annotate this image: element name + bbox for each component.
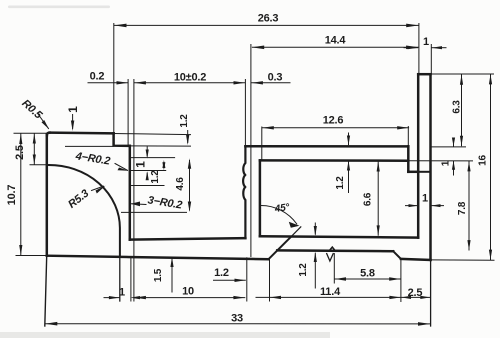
1 right-wall arrows	[409, 204, 419, 207]
1.2 bottom-left arrow	[235, 279, 246, 282]
svg-text:1.2: 1.2	[335, 176, 346, 190]
svg-text:7.8: 7.8	[457, 201, 468, 215]
dim 1.2 tongue lower arrow line	[314, 253, 316, 288]
cluster line y185.5	[130, 185, 164, 187]
4-R0.2 leader arrow	[118, 168, 129, 171]
ext left edge down (33 left)	[45, 256, 47, 326]
svg-text:33: 33	[231, 313, 243, 325]
7.8 arrows	[467, 161, 470, 171]
right tab top	[418, 73, 430, 76]
12.6 arrows	[262, 126, 274, 129]
svg-text:16: 16	[478, 155, 489, 166]
dim line 5.8	[335, 278, 401, 280]
pocket right step horizontal	[408, 171, 418, 174]
ext slot-left-wall down	[130, 258, 132, 302]
5.8 arrows	[335, 277, 346, 280]
dim line 0.2 tail	[88, 82, 128, 84]
dim line 33	[46, 323, 431, 325]
dim line 2.5 left	[33, 134, 35, 164]
cluster line y157.6	[130, 157, 175, 159]
14.4 right arrow	[406, 46, 418, 50]
slot floor	[130, 238, 246, 239]
slot left wall	[129, 146, 132, 240]
leader 3-R0.2	[132, 203, 147, 206]
svg-text:1.2: 1.2	[298, 263, 309, 277]
dim 1 cluster upper arrow line	[146, 147, 148, 156]
dim 45deg arc	[261, 205, 297, 224]
scan shade bottom	[0, 332, 330, 338]
ext arc-end down (1 bottom)	[119, 257, 121, 302]
leader R0.5	[38, 114, 49, 129]
ext top edge right thin	[114, 134, 191, 135]
bottom edge left	[47, 256, 269, 260]
step horizontal continuation to right edge	[418, 171, 430, 173]
pocket bottom	[260, 236, 418, 237]
step down at x=113.6	[114, 133, 130, 146]
dim 7.8 line	[468, 162, 470, 251]
top edge left section	[50, 131, 114, 134]
ext pocket top right (7.8 top, crossing tab)	[409, 160, 473, 162]
ext slot-right-wall down	[246, 258, 248, 301]
svg-text:1: 1	[441, 160, 452, 166]
ext V-notch down (5.8 left)	[333, 254, 335, 284]
dim 16 line	[490, 75, 492, 260]
1 right-step arrows	[452, 138, 455, 147]
left edge	[46, 135, 49, 256]
svg-text:10.7: 10.7	[6, 185, 18, 206]
dim line 0.3 tail	[252, 82, 291, 84]
tongue right chamfer	[393, 251, 401, 259]
svg-text:11.4: 11.4	[320, 286, 341, 298]
svg-text:10±0.2: 10±0.2	[174, 72, 206, 84]
scan streak top-left	[8, 6, 110, 9]
1.2 tongue arrows	[314, 226, 317, 236]
dim 1.2 pocket lower arrow line	[348, 161, 350, 192]
1.2 pocket arrows	[347, 136, 350, 146]
dim line 11.4 / 2.5 bottom	[256, 296, 430, 298]
part right edge	[429, 74, 432, 260]
R5.3 arc	[47, 165, 120, 256]
cluster line y170.5	[130, 170, 166, 172]
ext chamfer-start down (11.4 left)	[269, 260, 271, 302]
dim 1 right-step upper arrow line	[453, 141, 455, 147]
dim line 14.4	[252, 46, 418, 48]
pocket top	[260, 159, 408, 162]
ext top face right (6.3 bottom)	[431, 146, 466, 148]
svg-text:45°: 45°	[273, 202, 291, 215]
svg-text:6.3: 6.3	[452, 100, 463, 114]
45 deg chamfer thin extension	[291, 227, 301, 237]
svg-text:6.6: 6.6	[363, 192, 374, 206]
33 arrows	[45, 322, 57, 326]
dim 1 top-left arrow line	[72, 115, 74, 129]
ext tab-left up (26.3/14.4 right)	[418, 24, 420, 74]
dim 6.6 line	[377, 162, 379, 235]
45 deg chamfer	[269, 237, 291, 259]
dim 1 cluster lower arrow line	[146, 173, 148, 179]
leader R5.3	[92, 186, 104, 190]
4.6 arrows	[188, 158, 191, 169]
slot right wall (wavy middle)	[243, 146, 245, 238]
6.6 arrows	[377, 161, 380, 171]
svg-text:14.4: 14.4	[325, 35, 347, 47]
1 tab arrows	[408, 46, 419, 49]
V notch on tongue	[329, 247, 335, 251]
bottom edge right	[401, 259, 431, 260]
3-R0.2 leader arrow	[131, 202, 140, 207]
2.5 bottom arrows	[401, 296, 411, 299]
svg-text:1.5: 1.5	[153, 268, 164, 282]
ext step line left of step (1 top-left)	[66, 145, 114, 147]
svg-text:1.2: 1.2	[179, 114, 190, 128]
surface symbol below tongue	[327, 254, 334, 261]
svg-text:4.6: 4.6	[175, 177, 186, 191]
dim line 1.2 bottom-left	[214, 279, 246, 281]
svg-text:26.3: 26.3	[258, 13, 279, 25]
dim 1 right-wall arrow lines	[406, 205, 444, 207]
45 arc arrow	[289, 222, 300, 228]
ext bottom edge right (16 bottom)	[432, 259, 495, 261]
svg-text:10: 10	[182, 286, 194, 298]
dim 1 right-step lower arrow line	[453, 161, 455, 175]
10 bottom arrows	[134, 296, 146, 299]
pocket left wall	[259, 160, 262, 236]
svg-text:1: 1	[66, 106, 80, 113]
ext top edge left (10.7/2.5 top)	[14, 132, 46, 134]
1.2 top-mid arrow down	[186, 135, 189, 146]
ext 10 dim left full	[133, 80, 135, 302]
ext 2.5 bottom (arc start level)	[30, 164, 48, 166]
R5.3 leader arrow	[96, 186, 106, 194]
svg-text:5.8: 5.8	[360, 268, 375, 280]
dim line 10 bottom	[134, 297, 244, 299]
dim 1.2 cluster arrows line	[163, 163, 165, 168]
ext step corner up (26.3 left)	[113, 24, 115, 133]
svg-text:1.2: 1.2	[214, 267, 229, 279]
0.3 arrow	[251, 81, 263, 84]
10.7 arrows	[19, 134, 22, 144]
right tab left edge + pocket right wall	[417, 74, 420, 237]
dim 1.2 top-mid line	[187, 131, 189, 143]
16 arrows	[489, 74, 492, 84]
svg-text:1: 1	[422, 193, 428, 205]
14.4 left arrow	[252, 46, 264, 50]
cluster line y212.4 (4.6 bottom)	[122, 211, 187, 213]
dim line 10.7	[20, 134, 22, 255]
1 cluster arrows	[146, 150, 149, 159]
dim 4.6 line	[189, 161, 191, 211]
dim line 26.3	[114, 24, 418, 26]
1 bottom arrows	[109, 296, 120, 299]
top face middle-right	[245, 145, 408, 148]
ext 12.6 left	[261, 127, 263, 160]
ext 12.6 right (into part edge)	[407, 127, 409, 147]
1.2 cluster arrows	[162, 160, 165, 168]
R0.5 leader arrow	[42, 120, 50, 129]
svg-text:1: 1	[423, 36, 429, 48]
10+-0.2 arrows	[134, 81, 146, 84]
1.5 arrow up	[170, 257, 173, 267]
1 top-left arrow down	[71, 121, 74, 132]
leader 4-R0.2	[115, 164, 128, 171]
svg-text:1: 1	[134, 161, 148, 168]
top-left corner R0.5	[47, 133, 50, 136]
dim line 10+-0.2	[135, 82, 246, 84]
dim 6.3 line	[461, 75, 463, 146]
svg-text:2.5: 2.5	[408, 287, 423, 299]
pocket right step vertical	[407, 146, 410, 171]
svg-text:1: 1	[119, 287, 125, 299]
svg-text:1.2: 1.2	[150, 170, 161, 184]
dim 1.2 pocket upper arrow line	[348, 133, 350, 145]
ext step line right thin	[130, 145, 191, 147]
dim 1.5 arrow line	[171, 259, 173, 293]
ext right edge down (33/2.5 right)	[430, 261, 432, 327]
dim 1.2 tongue upper arrow line	[314, 223, 316, 234]
tongue top	[277, 249, 393, 252]
svg-text:0.3: 0.3	[268, 72, 283, 84]
0.2 arrow	[117, 81, 129, 84]
svg-text:0.2: 0.2	[90, 71, 105, 83]
ext tab top right (6.3/16 top)	[432, 73, 494, 75]
2.5 left arrows	[33, 134, 36, 144]
dim line 1 tab right part	[432, 47, 446, 49]
dim 1 bottom tail left	[104, 297, 119, 299]
ext bottom edge left	[16, 255, 46, 257]
6.3 arrows	[460, 75, 463, 85]
dim line 12.6	[262, 127, 408, 129]
26.3 left arrow	[114, 24, 126, 28]
ext tongue-right-chamfer down	[400, 260, 402, 302]
dim line 1 tab left part	[404, 47, 418, 49]
11.4 arrows	[270, 296, 281, 299]
ext slot right wall full (14.4 left / 0.3)	[250, 45, 252, 257]
svg-text:2.5: 2.5	[14, 145, 26, 160]
26.3 right arrow	[406, 24, 418, 28]
ext slot right wavy wall up	[244, 80, 246, 146]
ext tab right up (1 tab)	[430, 45, 432, 74]
svg-text:12.6: 12.6	[323, 115, 344, 127]
ext wall-top 0.2 left	[127, 80, 129, 146]
